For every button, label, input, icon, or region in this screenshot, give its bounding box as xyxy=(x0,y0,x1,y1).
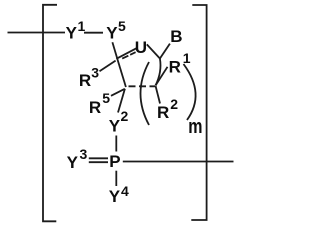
svg-text:R: R xyxy=(157,103,169,122)
svg-text:5: 5 xyxy=(102,90,110,106)
svg-text:5: 5 xyxy=(118,18,126,34)
svg-text:B: B xyxy=(170,27,182,46)
svg-text:2: 2 xyxy=(170,96,178,112)
svg-text:R: R xyxy=(89,98,101,117)
svg-text:3: 3 xyxy=(91,64,99,80)
svg-text:4: 4 xyxy=(121,183,129,199)
svg-text:m: m xyxy=(188,116,202,138)
svg-text:Y: Y xyxy=(106,23,118,42)
svg-text:Y: Y xyxy=(67,153,79,172)
svg-text:1: 1 xyxy=(78,18,86,34)
svg-text:1: 1 xyxy=(183,50,191,66)
svg-text:P: P xyxy=(109,152,120,171)
svg-text:3: 3 xyxy=(80,146,88,162)
svg-text:Y: Y xyxy=(66,24,78,43)
svg-text:U: U xyxy=(135,38,147,57)
svg-text:Y: Y xyxy=(109,187,121,206)
svg-text:Y: Y xyxy=(109,116,121,135)
svg-text:R: R xyxy=(79,71,91,90)
svg-text:2: 2 xyxy=(121,108,129,124)
svg-text:R: R xyxy=(169,58,181,77)
